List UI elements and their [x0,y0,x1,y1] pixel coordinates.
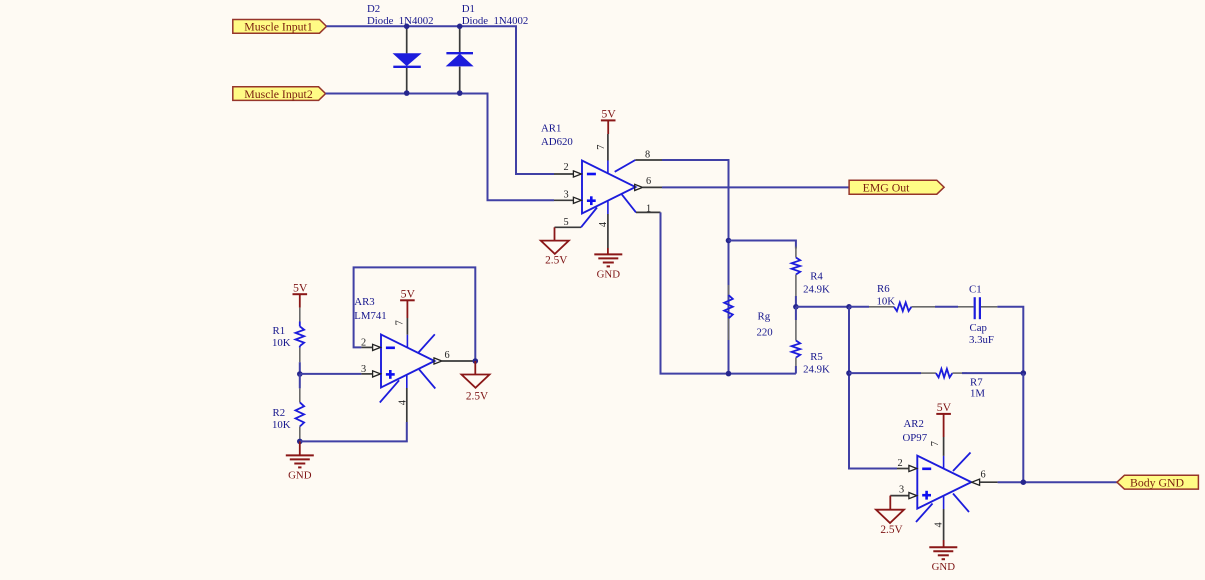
op-amp AR3 pin 7 [406,318,408,335]
svg-text:AR3: AR3 [354,296,374,308]
svg-text:6: 6 [445,350,450,361]
resistor R2 [299,374,301,388]
port Muscle Input2 [233,87,326,101]
wire Muscle Input2 to AR1 pin3 [326,94,554,201]
svg-text:2: 2 [361,338,366,349]
diode D1 pins [459,26,461,53]
diode D2 body [394,54,420,65]
svg-text:AR1: AR1 [541,123,561,135]
svg-text:Rg: Rg [758,310,771,322]
op-amp AR1 pin 5 [555,226,582,228]
op-amp AR2 offset pin stub lower right [953,494,969,513]
op-amp AR2 triangle [917,456,971,509]
op-amp AR1 pin 2 [554,173,573,175]
power 2.5V at AR3 output [474,361,476,375]
svg-text:OP97: OP97 [903,432,928,444]
op-amp AR1 pin 1 [622,194,636,212]
svg-text:GND: GND [288,469,312,481]
op-amp AR2 pin 4 [943,496,945,509]
op-amp AR2 offset pin stub lower left [916,504,933,523]
svg-text:GND: GND [597,268,621,280]
op-amp AR3 pin 3 [361,373,372,375]
wire R2 bottom to AR3 pin4 [300,422,407,441]
op-amp AR2 pin 7 [943,437,945,456]
svg-text:2.5V: 2.5V [880,524,903,536]
op-amp AR2 pin 2 [897,468,908,470]
junction dot AR2 output [1021,479,1027,485]
power 2.5V at AR1 pin5 [554,227,556,240]
wire AR1 pin8 to Rg column [662,160,729,374]
wire AR3 feedback loop [354,267,476,361]
svg-text:D1: D1 [462,3,475,15]
svg-text:R5: R5 [810,351,823,363]
svg-text:6: 6 [646,176,651,187]
ground GND at AR1 pin4 [607,248,609,254]
svg-text:R4: R4 [810,270,823,282]
wire Muscle Input1 to AR1 pin2 [327,26,555,174]
op-amp AR2 plus [922,494,931,497]
svg-text:10K: 10K [272,419,291,431]
svg-text:1M: 1M [970,388,985,400]
junction dot D2 top [404,24,410,30]
junction dot D1 top [457,24,463,30]
op-amp AR2 minus [922,467,931,470]
svg-text:LM741: LM741 [354,310,386,322]
svg-text:24.9K: 24.9K [803,284,830,296]
junction dot Rg top [726,238,732,244]
svg-text:1: 1 [646,203,651,214]
svg-text:R7: R7 [970,376,983,388]
svg-text:5: 5 [564,217,569,228]
svg-text:220: 220 [757,327,773,339]
junction dot R4-R5 [793,304,799,310]
svg-text:3: 3 [899,484,904,495]
svg-text:Diode 1N4002: Diode 1N4002 [367,15,434,27]
op-amp AR1 pin 8 [615,160,636,172]
svg-text:3: 3 [361,364,366,375]
op-amp AR2 offset pin stub upper [953,453,971,472]
wire C1 to R7 right node [997,307,1023,373]
svg-text:C1: C1 [969,284,982,296]
svg-text:R6: R6 [877,283,890,295]
svg-text:2.5V: 2.5V [466,391,489,403]
resistor R1 [299,308,301,322]
op-amp AR2 pin 3 [890,495,908,497]
junction dot D1 bottom [457,90,463,96]
svg-text:4: 4 [933,522,944,527]
diode D1 body [447,54,472,65]
svg-text:3.3uF: 3.3uF [969,334,994,346]
svg-text:8: 8 [645,150,650,161]
port Muscle Input1 [233,20,327,34]
op-amp AR3 offset pin stub lower left [380,380,399,402]
svg-text:AD620: AD620 [541,136,573,148]
capacitor C1 plates [974,297,976,319]
svg-text:2: 2 [898,458,903,469]
wire R4R5 node to R6 node [796,306,849,308]
wire AR1 pin6 to EMG Out [662,186,849,188]
svg-text:24.9K: 24.9K [803,363,830,375]
svg-text:10K: 10K [272,337,291,349]
op-amp AR3 pin 2 [361,346,372,348]
resistor R6 [849,306,869,308]
op-amp AR3 minus [386,346,395,349]
resistor R4 [795,247,797,258]
op-amp AR1 pin 3 [554,199,573,201]
svg-text:10K: 10K [877,295,896,307]
resistor R5 [795,307,797,320]
svg-text:6: 6 [981,469,986,480]
ground GND at R2 [299,441,301,455]
svg-text:AR2: AR2 [904,418,924,430]
op-amp AR1 plus [587,199,596,202]
wire Rg top to R4 top [729,241,796,249]
op-amp AR3 offset pin stub lower right [419,370,435,389]
op-amp AR1 pin 6 [635,184,643,190]
junction dot R6 left [846,304,852,310]
svg-text:EMG Out: EMG Out [863,180,911,194]
junction dot D2 bottom [404,90,410,96]
svg-text:R2: R2 [273,407,286,419]
resistor Rg [728,285,730,295]
wire AR2 output to Body GND [998,481,1117,483]
svg-text:5V: 5V [293,280,308,294]
junction dot AR3 output [473,358,479,364]
wire AR1 pin1 to bottom rail [661,212,796,373]
junction dot R7 left [846,370,852,376]
ground GND at AR2 pin4 [943,540,945,547]
svg-text:7: 7 [596,145,607,150]
resistor R7 [849,372,921,374]
svg-text:5V: 5V [401,287,416,301]
svg-text:7: 7 [930,441,941,446]
op-amp AR1 minus [587,173,596,176]
port EMG Out [849,180,944,194]
op-amp AR3 plus [386,373,395,376]
svg-text:4: 4 [397,400,408,405]
junction dot divider mid [297,371,303,377]
svg-text:3: 3 [564,190,569,201]
power 2.5V at AR2 pin3 [889,496,891,510]
svg-text:7: 7 [395,320,406,325]
op-amp AR3 offset pin stub upper [418,334,434,352]
svg-text:Diode 1N4002: Diode 1N4002 [462,15,529,27]
wire node to AR2 pin2 [849,307,897,469]
svg-text:2: 2 [564,162,569,173]
svg-text:4: 4 [598,222,609,227]
svg-text:Cap: Cap [970,322,987,334]
port Body GND [1117,475,1198,489]
svg-text:2.5V: 2.5V [545,255,568,267]
svg-text:R1: R1 [273,325,286,337]
op-amp AR1 triangle [582,161,636,214]
svg-text:Muscle Input2: Muscle Input2 [244,87,313,101]
junction dot R2 bottom [297,439,303,445]
capacitor C1 pins [958,306,974,308]
wire R7 node down to AR2 output [1022,373,1024,482]
op-amp AR3 pin 4 [406,375,408,388]
svg-text:5V: 5V [601,107,616,121]
op-amp AR3 pin 6 [434,358,442,364]
junction dot R7 right [1021,370,1027,376]
svg-text:Body GND: Body GND [1130,475,1185,489]
svg-text:5V: 5V [937,400,952,414]
diode D2 pins [406,26,408,53]
op-amp AR3 triangle [381,335,435,388]
op-amp AR1 pin 7 [607,134,609,161]
wire divider mid to AR3 pin3 [300,373,362,375]
svg-text:GND: GND [932,561,956,573]
op-amp AR1 pin 4 [607,201,609,214]
op-amp AR2 pin 6 [972,479,980,485]
svg-text:Muscle Input1: Muscle Input1 [244,20,313,34]
svg-text:D2: D2 [367,3,380,15]
junction dot Rg bottom [726,371,732,377]
